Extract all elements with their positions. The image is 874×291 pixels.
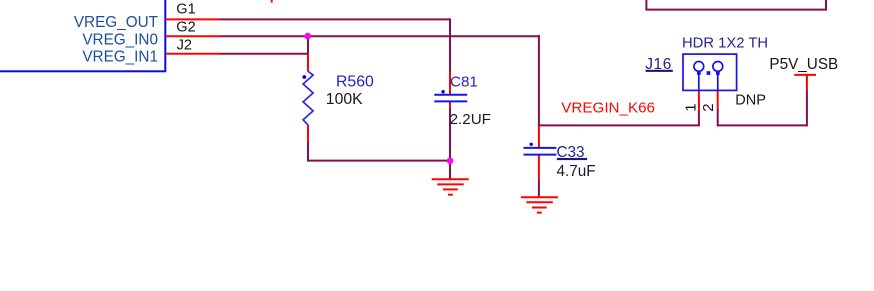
svg-text:G1: G1 — [176, 2, 195, 18]
svg-text:2: 2 — [700, 103, 717, 111]
svg-text:4.7uF: 4.7uF — [557, 163, 596, 180]
svg-text:R560: R560 — [336, 73, 374, 90]
svg-text:2.2UF: 2.2UF — [450, 111, 491, 128]
svg-text:DNP: DNP — [735, 93, 766, 109]
svg-text:VREG_IN1: VREG_IN1 — [82, 48, 158, 65]
svg-text:P5V_USB: P5V_USB — [769, 56, 838, 73]
svg-text:HDR 1X2 TH: HDR 1X2 TH — [682, 36, 768, 52]
svg-text:J2: J2 — [177, 37, 192, 53]
svg-text:VREGIN_K66: VREGIN_K66 — [561, 99, 655, 116]
svg-text:VREG_OUT: VREG_OUT — [74, 14, 158, 31]
svg-text:C81: C81 — [450, 74, 478, 91]
svg-text:1: 1 — [682, 103, 699, 111]
svg-text:100K: 100K — [326, 91, 363, 108]
svg-text:VREG_IN0: VREG_IN0 — [82, 31, 158, 48]
svg-text:G2: G2 — [176, 19, 195, 35]
